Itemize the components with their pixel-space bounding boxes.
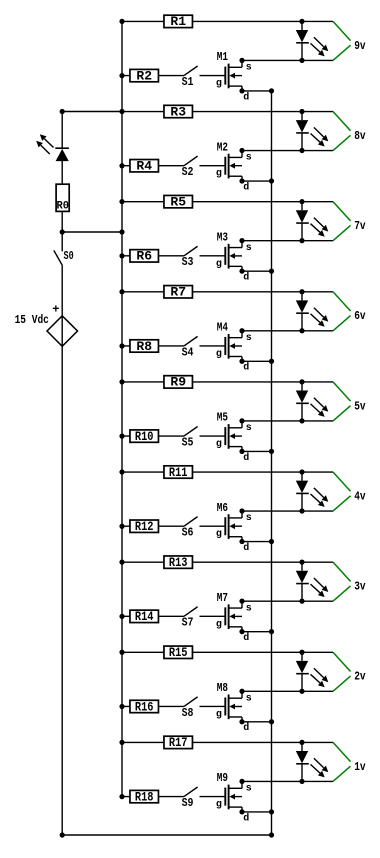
node: LED D1 cathode xyxy=(299,58,304,63)
node: drain of M9 xyxy=(239,809,244,814)
node: LED D5 cathode xyxy=(299,418,304,423)
LED D7 (3v leg) xyxy=(296,562,329,601)
resistor R6 xyxy=(130,249,159,264)
svg-text:g: g xyxy=(216,349,222,360)
node: source of M1 xyxy=(239,58,244,63)
wire: S1 to gate of M1 xyxy=(200,75,226,77)
svg-text:15 Vdc: 15 Vdc xyxy=(15,313,49,327)
wire: R8 row (left bus to switch) xyxy=(122,345,184,347)
svg-text:g: g xyxy=(216,529,222,540)
node: right bus / drain M4 xyxy=(269,359,274,364)
wire: R13 row (left bus to LED branch) xyxy=(122,561,333,563)
svg-text:s: s xyxy=(246,63,252,74)
node: left bus / R13 xyxy=(119,560,124,565)
switch S7 xyxy=(182,607,198,630)
svg-text:g: g xyxy=(216,439,222,450)
resistor R2 xyxy=(130,68,159,83)
svg-text:8v: 8v xyxy=(354,129,365,143)
node: source of M4 xyxy=(239,328,244,333)
wire: R2 row (left bus to switch) xyxy=(122,75,184,77)
node: drain of M3 xyxy=(239,269,244,274)
switch S9 xyxy=(182,787,198,810)
svg-text:g: g xyxy=(216,79,222,90)
wire: right vertical bus xyxy=(271,91,273,835)
wire: source row to LED branch xyxy=(242,780,333,782)
node: left bus / R1 xyxy=(119,19,124,24)
wire: source row to LED branch xyxy=(242,510,333,512)
resistor R14 xyxy=(130,609,159,624)
svg-text:R1: R1 xyxy=(170,14,186,29)
wire: source row to LED branch xyxy=(242,150,333,152)
svg-text:S9: S9 xyxy=(182,796,194,810)
svg-text:g: g xyxy=(216,709,222,720)
wire: S2 to gate of M2 xyxy=(200,165,226,167)
wire: drain to right bus xyxy=(242,541,272,543)
wire: drain to right bus xyxy=(242,180,272,182)
resistor R0 xyxy=(56,184,69,212)
node: LED D4 anode xyxy=(299,289,304,294)
svg-text:M5: M5 xyxy=(217,411,228,425)
svg-text:g: g xyxy=(216,619,222,630)
node: left bus / R8 xyxy=(119,343,124,348)
node: left bus / R7 xyxy=(119,289,124,294)
resistor R4 xyxy=(130,159,159,174)
node: drain of M2 xyxy=(239,178,244,183)
node: source of M5 xyxy=(239,418,244,423)
node: left bus / R9 xyxy=(119,379,124,384)
node: LED D8 cathode xyxy=(299,689,304,694)
node: left bus / R6 xyxy=(119,253,124,258)
wire: drain to right bus xyxy=(242,90,272,92)
wire: source row to LED branch xyxy=(242,690,333,692)
node: left bus / R5 xyxy=(119,199,124,204)
wire: drain to right bus xyxy=(242,631,272,633)
transistor M4 (NMOS) xyxy=(216,321,252,374)
node: LED D2 cathode xyxy=(299,148,304,153)
svg-text:R7: R7 xyxy=(170,285,186,300)
node: drain of M4 xyxy=(239,359,244,364)
svg-text:M3: M3 xyxy=(217,230,228,244)
wire: R17 row (left bus to LED branch) xyxy=(122,741,333,743)
node: LED D8 anode xyxy=(299,650,304,655)
svg-text:d: d xyxy=(243,181,249,193)
node: left bus / R17 xyxy=(119,740,124,745)
LED D4 (6v leg) xyxy=(296,292,329,331)
LED D1 (9v leg) xyxy=(296,21,329,60)
wire: source row to LED branch xyxy=(242,240,333,242)
LED D5 (5v leg) xyxy=(296,382,329,421)
resistor R12 xyxy=(130,519,159,534)
wire: source row to LED branch xyxy=(242,330,333,332)
transistor M5 (NMOS) xyxy=(216,411,252,464)
svg-text:M4: M4 xyxy=(217,321,228,335)
LED D0 (left, pointing up) xyxy=(36,134,69,161)
svg-text:R16: R16 xyxy=(135,699,154,714)
LED D2 (8v leg) xyxy=(296,112,329,151)
LED D3 (7v leg) xyxy=(296,202,329,241)
net marker 8v (green bracket) xyxy=(333,112,351,151)
svg-text:R9: R9 xyxy=(170,375,186,390)
wire: R12 row (left bus to switch) xyxy=(122,525,184,527)
wire: S5 to gate of M5 xyxy=(200,435,226,437)
node: left bus / R16 xyxy=(119,704,124,709)
wire: R14 row (left bus to switch) xyxy=(122,615,184,617)
resistor R5 xyxy=(164,194,193,209)
node: left bus / R12 xyxy=(119,524,124,529)
wire: S3 to gate of M3 xyxy=(200,255,226,257)
svg-text:g: g xyxy=(216,169,222,180)
svg-text:s: s xyxy=(246,333,252,344)
transistor M3 (NMOS) xyxy=(216,230,252,283)
wire: R7 row (left bus to LED branch) xyxy=(122,291,333,293)
resistor R7 xyxy=(164,285,193,300)
svg-text:S4: S4 xyxy=(182,345,194,359)
wire: R6 row (left bus to switch) xyxy=(122,255,184,257)
svg-text:R0: R0 xyxy=(56,200,69,212)
node: right bus / drain M2 xyxy=(269,178,274,183)
svg-text:d: d xyxy=(243,91,249,103)
node: drain of M1 xyxy=(239,88,244,93)
wire: R0 to junction xyxy=(61,211,63,232)
node: bottom rail left corner xyxy=(60,832,65,837)
svg-text:R4: R4 xyxy=(136,159,152,174)
node: LED D3 anode xyxy=(299,199,304,204)
node: right bus / drain M1 xyxy=(269,88,274,93)
svg-text:1v: 1v xyxy=(354,760,365,774)
node: left bus / R4 xyxy=(119,163,124,168)
node: source of M6 xyxy=(239,508,244,513)
wire: R5 row (left bus to LED branch) xyxy=(122,201,333,203)
svg-text:R6: R6 xyxy=(136,249,152,264)
wire: R16 row (left bus to switch) xyxy=(122,705,184,707)
svg-text:M2: M2 xyxy=(217,140,228,154)
node: right bus / drain M9 xyxy=(269,809,274,814)
node: left branch top junction xyxy=(60,109,65,114)
svg-text:d: d xyxy=(243,812,249,824)
svg-text:2v: 2v xyxy=(354,670,365,684)
svg-text:d: d xyxy=(243,362,249,374)
svg-text:R14: R14 xyxy=(135,609,154,624)
node: source of M3 xyxy=(239,238,244,243)
svg-text:M1: M1 xyxy=(217,50,228,64)
svg-text:d: d xyxy=(243,452,249,464)
svg-text:5v: 5v xyxy=(354,399,365,413)
node: right bus / drain M5 xyxy=(269,449,274,454)
svg-text:6v: 6v xyxy=(354,309,365,323)
net marker 3v (green bracket) xyxy=(333,562,351,601)
net marker 4v (green bracket) xyxy=(333,472,351,511)
node: drain of M8 xyxy=(239,719,244,724)
svg-text:s: s xyxy=(246,423,252,434)
voltage source V0 15 Vdc (diamond) xyxy=(47,316,78,347)
switch S6 xyxy=(182,517,198,540)
svg-text:R2: R2 xyxy=(136,68,152,83)
wire: S8 to gate of M8 xyxy=(200,705,226,707)
node: LED D7 cathode xyxy=(299,599,304,604)
svg-text:s: s xyxy=(246,513,252,524)
resistor R15 xyxy=(164,645,193,660)
net marker 1v (green bracket) xyxy=(333,742,351,781)
svg-text:R13: R13 xyxy=(169,555,188,570)
svg-text:d: d xyxy=(243,542,249,554)
wire: bottom rail xyxy=(62,834,271,836)
wire: S4 to gate of M4 xyxy=(200,345,226,347)
wire: S6 to gate of M6 xyxy=(200,525,226,527)
node: drain of M6 xyxy=(239,539,244,544)
svg-text:M6: M6 xyxy=(217,501,228,515)
svg-text:s: s xyxy=(246,603,252,614)
transistor M2 (NMOS) xyxy=(216,140,252,193)
node: left bus tap xyxy=(119,229,124,234)
wire: source row to LED branch xyxy=(242,59,333,61)
wire: drain to right bus xyxy=(242,721,272,723)
svg-text:R8: R8 xyxy=(136,339,152,354)
wire: R15 row (left bus to LED branch) xyxy=(122,651,333,653)
svg-text:d: d xyxy=(243,632,249,644)
wire: left branch down to LED D0 xyxy=(61,112,63,149)
LED D6 (4v leg) xyxy=(296,472,329,511)
svg-text:M7: M7 xyxy=(217,591,228,605)
svg-text:M9: M9 xyxy=(217,771,228,785)
resistor R11 xyxy=(164,465,193,480)
svg-text:R17: R17 xyxy=(169,735,188,750)
node: LED D9 cathode xyxy=(299,779,304,784)
node: drain of M5 xyxy=(239,449,244,454)
resistor R10 xyxy=(130,429,159,444)
svg-text:7v: 7v xyxy=(354,219,365,233)
wire: drain to right bus xyxy=(242,811,272,813)
node: LED D6 cathode xyxy=(299,508,304,513)
node: left bus / R2 xyxy=(119,73,124,78)
net marker 5v (green bracket) xyxy=(333,382,351,421)
wire: R4 row (left bus to switch) xyxy=(122,165,184,167)
switch S5 xyxy=(182,427,198,450)
wire: source row to LED branch xyxy=(242,600,333,602)
svg-text:g: g xyxy=(216,259,222,270)
node: LED D4 cathode xyxy=(299,328,304,333)
node: LED D7 anode xyxy=(299,560,304,565)
node: LED D3 cathode xyxy=(299,238,304,243)
svg-text:M8: M8 xyxy=(217,681,228,695)
node: bottom rail meets right bus xyxy=(269,832,274,837)
svg-text:s: s xyxy=(246,693,252,704)
svg-text:4v: 4v xyxy=(354,489,365,503)
node: left bus / R18 xyxy=(119,794,124,799)
svg-text:3v: 3v xyxy=(354,580,365,594)
resistor R16 xyxy=(130,699,159,714)
wire: S9 to gate of M9 xyxy=(200,796,226,798)
node: LED D2 anode xyxy=(299,109,304,114)
svg-text:s: s xyxy=(246,784,252,795)
svg-text:S6: S6 xyxy=(182,526,194,540)
svg-text:R11: R11 xyxy=(169,465,188,480)
node: left bus / R3 xyxy=(119,109,124,114)
transistor M1 (NMOS) xyxy=(216,50,252,103)
switch S2 xyxy=(182,156,198,179)
wire: R1 row (left bus to LED branch) xyxy=(122,20,333,22)
switch S3 xyxy=(182,246,198,269)
svg-text:g: g xyxy=(216,800,222,811)
resistor R9 xyxy=(164,375,193,390)
svg-text:S3: S3 xyxy=(182,255,194,269)
svg-text:R5: R5 xyxy=(170,194,186,209)
transistor M9 (NMOS) xyxy=(216,771,252,824)
wire: R9 row (left bus to LED branch) xyxy=(122,381,333,383)
node: drain of M7 xyxy=(239,629,244,634)
node: right bus / drain M8 xyxy=(269,719,274,724)
node: left bus / R14 xyxy=(119,614,124,619)
net marker 7v (green bracket) xyxy=(333,202,351,241)
wire: R3 row (left bus to LED branch) xyxy=(122,111,333,113)
node: LED D1 anode xyxy=(299,19,304,24)
wire: R11 row (left bus to LED branch) xyxy=(122,471,333,473)
node: source of M8 xyxy=(239,689,244,694)
wire: left branch to left bus xyxy=(62,111,122,113)
wire: left vertical bus xyxy=(121,21,123,796)
LED D8 (2v leg) xyxy=(296,652,329,691)
resistor R18 xyxy=(130,789,159,804)
svg-text:S2: S2 xyxy=(182,165,194,179)
svg-text:d: d xyxy=(243,272,249,284)
svg-text:9v: 9v xyxy=(354,39,365,53)
svg-text:S5: S5 xyxy=(182,435,194,449)
net marker 2v (green bracket) xyxy=(333,652,351,691)
switch S0 xyxy=(54,249,74,265)
node: left bus / R10 xyxy=(119,434,124,439)
svg-text:R18: R18 xyxy=(135,789,154,804)
resistor R8 xyxy=(130,339,159,354)
wire: drain to right bus xyxy=(242,450,272,452)
wire: R18 row (left bus to switch) xyxy=(122,796,184,798)
svg-text:S7: S7 xyxy=(182,616,194,630)
node: right bus / drain M6 xyxy=(269,539,274,544)
wire: R10 row (left bus to switch) xyxy=(122,435,184,437)
node: source of M7 xyxy=(239,599,244,604)
node: LED D6 anode xyxy=(299,469,304,474)
svg-text:R15: R15 xyxy=(169,645,188,660)
node: R0/S0 junction xyxy=(60,229,65,234)
wire: V0 down to bottom rail xyxy=(61,346,63,835)
wire: junction to left bus xyxy=(62,231,122,233)
transistor M6 (NMOS) xyxy=(216,501,252,554)
switch S4 xyxy=(182,336,198,359)
resistor R1 xyxy=(164,14,193,29)
net marker 9v (green bracket) xyxy=(333,21,351,60)
wire: S0 to source V0 xyxy=(61,265,63,316)
switch S8 xyxy=(182,697,198,720)
wire: S7 to gate of M7 xyxy=(200,615,226,617)
svg-text:+: + xyxy=(52,303,59,317)
node: left bus / R15 xyxy=(119,650,124,655)
node: LED D5 anode xyxy=(299,379,304,384)
wire: drain to right bus xyxy=(242,360,272,362)
wire: junction down to switch S0 xyxy=(61,232,63,251)
node: right bus / drain M7 xyxy=(269,629,274,634)
wire: drain to right bus xyxy=(242,270,272,272)
resistor R13 xyxy=(164,555,193,570)
wire: source row to LED branch xyxy=(242,420,333,422)
node: source of M9 xyxy=(239,779,244,784)
switch S1 xyxy=(182,66,198,89)
node: source of M2 xyxy=(239,148,244,153)
node: LED D9 anode xyxy=(299,740,304,745)
node: left bus / R11 xyxy=(119,469,124,474)
svg-text:R10: R10 xyxy=(135,429,154,444)
svg-text:S1: S1 xyxy=(182,75,194,89)
transistor M7 (NMOS) xyxy=(216,591,252,644)
svg-text:R3: R3 xyxy=(170,104,186,119)
svg-text:S8: S8 xyxy=(182,706,194,720)
svg-text:S0: S0 xyxy=(64,249,74,263)
net marker 6v (green bracket) xyxy=(333,292,351,331)
transistor M8 (NMOS) xyxy=(216,681,252,734)
svg-text:s: s xyxy=(246,243,252,254)
wire: LED D0 to resistor R0 xyxy=(61,161,63,185)
svg-text:d: d xyxy=(243,722,249,734)
LED D9 (1v leg) xyxy=(296,742,329,781)
node: right bus / drain M3 xyxy=(269,269,274,274)
svg-text:R12: R12 xyxy=(135,519,154,534)
resistor R17 xyxy=(164,735,193,750)
resistor R3 xyxy=(164,104,193,119)
svg-text:s: s xyxy=(246,153,252,164)
